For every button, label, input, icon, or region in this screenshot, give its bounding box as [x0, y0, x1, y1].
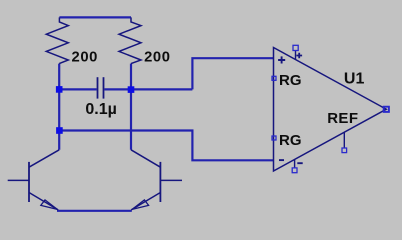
svg-text:U1: U1: [344, 71, 365, 88]
svg-text:0.1µ: 0.1µ: [85, 101, 116, 118]
svg-text:200: 200: [72, 49, 99, 65]
svg-text:RG: RG: [279, 132, 302, 149]
svg-text:REF: REF: [327, 110, 358, 127]
svg-text:RG: RG: [279, 72, 302, 89]
svg-text:200: 200: [144, 49, 171, 65]
